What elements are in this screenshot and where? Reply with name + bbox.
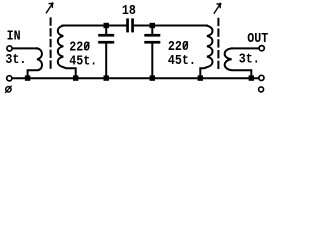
value 18 bbox=[122, 2, 136, 18]
junction L2 primary / rail bbox=[249, 75, 254, 80]
junction L2 secondary / rail bbox=[198, 75, 203, 80]
junction C1 bottom / rail bbox=[104, 75, 109, 80]
label 3t. right bbox=[239, 50, 260, 66]
svg-text:45t.: 45t. bbox=[69, 53, 97, 69]
slash of zero in 220 left bbox=[85, 42, 90, 50]
svg-text:OUT: OUT bbox=[247, 30, 268, 46]
svg-text:IN: IN bbox=[7, 28, 21, 44]
value 45t. left bbox=[69, 53, 97, 69]
wire C1 top lead bbox=[105, 26, 107, 34]
inductor L2 secondary 45t bbox=[200, 26, 212, 76]
junction L1 primary / rail bbox=[25, 75, 30, 80]
value 220 right bbox=[168, 38, 189, 54]
wire L2 primary to OUT bbox=[232, 47, 259, 49]
junction L1 secondary / rail bbox=[73, 75, 78, 80]
junction C2 top / rail bbox=[150, 23, 155, 28]
terminal 0V left bbox=[7, 76, 12, 81]
wire C1 bottom lead bbox=[105, 44, 107, 77]
svg-text:45t.: 45t. bbox=[168, 52, 196, 68]
capacitor C3 18pF plates bbox=[126, 18, 129, 32]
inductor L1 secondary 45t bbox=[58, 26, 76, 76]
terminal IN bbox=[7, 46, 12, 51]
junction C1 top / rail bbox=[104, 23, 109, 28]
core adjustable left dashed bbox=[50, 18, 52, 67]
svg-text:18: 18 bbox=[122, 2, 136, 18]
wire bottom rail bbox=[12, 77, 259, 79]
label IN bbox=[7, 28, 21, 44]
wire top rail left bbox=[63, 25, 127, 27]
wire C2 top lead bbox=[151, 26, 153, 34]
capacitor C2 220pF plates bbox=[144, 34, 160, 37]
wire IN to L1 primary bbox=[13, 47, 37, 49]
label 3t. left bbox=[5, 51, 26, 67]
capacitor C1 220pF plates bbox=[98, 34, 114, 37]
wire C2 bottom lead bbox=[151, 44, 153, 77]
inductor L2 primary 3t bbox=[225, 48, 252, 76]
core adjustable right dashed bbox=[217, 19, 219, 68]
svg-text:3t.: 3t. bbox=[5, 51, 26, 67]
wire top rail right bbox=[134, 25, 207, 27]
label OUT bbox=[247, 30, 268, 46]
junction C2 bottom / rail bbox=[150, 75, 155, 80]
value 45t. right bbox=[168, 52, 196, 68]
ground symbol left 0 slashed bbox=[6, 86, 12, 92]
ground post right bbox=[259, 87, 264, 92]
trimmer arrow left bbox=[46, 3, 53, 13]
terminal 0V right bbox=[259, 75, 264, 80]
trimmer arrow right bbox=[214, 3, 221, 13]
terminal OUT bbox=[259, 46, 264, 51]
svg-text:3t.: 3t. bbox=[239, 50, 260, 66]
value 220 left bbox=[69, 39, 90, 55]
slash of zero in 220 right bbox=[183, 41, 188, 49]
inductor L1 primary 3t bbox=[28, 48, 42, 76]
